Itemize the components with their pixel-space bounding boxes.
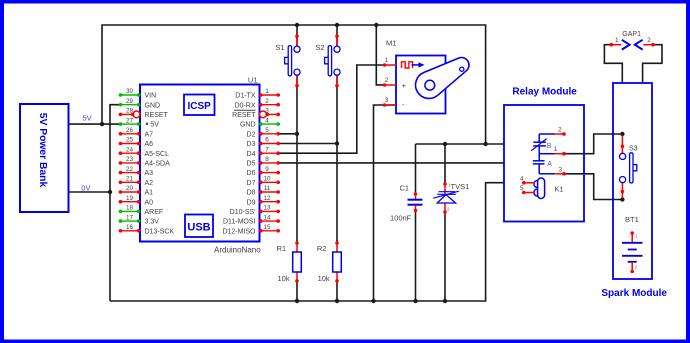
svg-text:25: 25 xyxy=(126,137,134,144)
op-amp U1 Arduino Nano body xyxy=(140,85,260,242)
motor M1 servo xyxy=(383,56,469,114)
wire 5V decoupling net to relay module xyxy=(416,143,505,145)
pin 19 A0 (left) xyxy=(119,195,153,206)
svg-text:D12-MISO: D12-MISO xyxy=(222,228,256,235)
pin 3 RESET (right) xyxy=(232,108,280,119)
pin 20 A1 (left) xyxy=(119,185,153,196)
capacitor C1 xyxy=(408,192,423,212)
pin 10 D7 (right) xyxy=(247,176,280,187)
svg-text:A3: A3 xyxy=(145,170,154,177)
svg-text:17: 17 xyxy=(126,214,134,221)
svg-text:13: 13 xyxy=(263,205,271,212)
pin 29 GND (left) xyxy=(119,98,160,109)
svg-text:0V: 0V xyxy=(81,184,90,193)
TVS diode TVS1 xyxy=(433,182,459,214)
svg-text:29: 29 xyxy=(126,98,134,105)
USB block xyxy=(185,215,213,238)
svg-text:D4: D4 xyxy=(247,151,256,158)
svg-text:8: 8 xyxy=(265,156,269,163)
svg-text:S3: S3 xyxy=(629,146,638,153)
svg-text:VIN: VIN xyxy=(145,93,157,100)
wire M1 pin2 to 5V rail xyxy=(376,25,384,85)
svg-text:20: 20 xyxy=(126,185,134,192)
svg-text:3.3V: 3.3V xyxy=(145,219,160,226)
label Relay Module xyxy=(512,87,577,98)
pin 1 D1-TX (right) xyxy=(235,88,280,99)
pin 28 RESET (left) xyxy=(119,108,169,119)
wire TVS1 bottom xyxy=(444,213,446,302)
label C1 xyxy=(400,184,410,193)
wire 5V from power bank to Arduino +5V pin xyxy=(69,123,121,125)
pin 9 D6 (right) xyxy=(247,166,280,177)
svg-text:A1: A1 xyxy=(145,190,154,197)
svg-text:D3: D3 xyxy=(247,141,256,148)
label R1 xyxy=(277,244,287,253)
svg-text:11: 11 xyxy=(264,185,271,192)
svg-text:A5-SCL: A5-SCL xyxy=(145,151,170,158)
svg-text:26: 26 xyxy=(126,127,134,134)
svg-text:2: 2 xyxy=(647,37,651,44)
switch S3 xyxy=(620,136,637,199)
svg-text:A4-SDA: A4-SDA xyxy=(145,161,171,168)
label Spark Module xyxy=(601,288,667,299)
svg-text:RESET: RESET xyxy=(145,112,169,119)
svg-text:15: 15 xyxy=(263,224,271,231)
svg-text:1: 1 xyxy=(554,146,558,153)
svg-text:R2: R2 xyxy=(317,244,327,253)
svg-text:1: 1 xyxy=(385,57,389,64)
pin 2 D0-RX (right) xyxy=(234,98,280,109)
pin 24 A5-SCL (left) xyxy=(119,146,169,157)
wire relay pin3 to spark module switch bottom xyxy=(564,174,622,200)
svg-text:A: A xyxy=(547,161,552,168)
wire S1 bottom to D2 junction xyxy=(296,76,298,134)
wire M1 pin3 to GND rail xyxy=(374,105,397,301)
net label 5V xyxy=(83,114,92,123)
svg-text:14: 14 xyxy=(263,214,271,221)
svg-text:16: 16 xyxy=(126,224,134,231)
pin 16 D13-SCK (left) xyxy=(119,224,175,235)
svg-text:S2: S2 xyxy=(315,43,324,52)
svg-text:5V Power Bank: 5V Power Bank xyxy=(37,113,48,188)
svg-text:B: B xyxy=(547,143,552,150)
resistor R2 xyxy=(333,241,342,283)
pin 11 D8 (right) xyxy=(247,185,280,196)
wire R2 top xyxy=(336,144,338,243)
svg-text:4: 4 xyxy=(520,175,524,182)
pin 18 AREF (left) xyxy=(119,205,163,216)
svg-text:18: 18 xyxy=(126,205,134,212)
wire S1 top to 5V rail xyxy=(296,25,298,46)
relay contacts A and B xyxy=(531,126,566,175)
wire D2 from Arduino pin5 xyxy=(279,133,298,135)
pin 25 A6 (left) xyxy=(119,137,153,148)
wire D3 from Arduino pin6 xyxy=(279,143,338,145)
svg-text:5V: 5V xyxy=(83,114,92,123)
svg-text:24: 24 xyxy=(126,146,134,153)
svg-text:BT1: BT1 xyxy=(625,215,639,224)
label S3 xyxy=(629,146,638,153)
svg-text:A6: A6 xyxy=(145,141,154,148)
svg-text:12: 12 xyxy=(263,195,271,202)
pin 13 D10-SS' (right) xyxy=(230,205,280,216)
svg-text:2: 2 xyxy=(265,98,269,105)
pin 17 3.3V (left) xyxy=(119,214,160,225)
pin 26 A7 (left) xyxy=(119,127,153,138)
pin 5 D2 (right) xyxy=(247,127,280,138)
wire GAP1 pin2 to spark module xyxy=(643,45,662,83)
pin 7 D4 (right) xyxy=(247,146,280,157)
svg-text:GND: GND xyxy=(240,122,256,129)
svg-text:7: 7 xyxy=(265,146,269,153)
wire 0V from power bank to GND vertical xyxy=(69,191,111,193)
svg-text:3: 3 xyxy=(559,167,563,174)
wire R2 bottom xyxy=(336,282,338,302)
pin 12 D9 (right) xyxy=(247,195,280,206)
svg-text:5: 5 xyxy=(265,127,269,134)
svg-text:GAP1: GAP1 xyxy=(622,31,641,38)
svg-text:D6: D6 xyxy=(247,170,256,177)
wire C1 bottom branch xyxy=(415,211,417,301)
svg-text:2: 2 xyxy=(385,77,389,84)
svg-text:1: 1 xyxy=(615,37,619,44)
pin 30 VIN (left) xyxy=(119,88,156,99)
svg-text:22: 22 xyxy=(126,166,134,173)
relay module box xyxy=(504,105,584,222)
svg-text:10k: 10k xyxy=(318,274,330,283)
pin 4 GND (right) xyxy=(240,117,280,128)
svg-text:2: 2 xyxy=(558,126,562,133)
pin 15 D12-MISO (right) xyxy=(222,224,280,235)
wire S2 bottom to D3 junction xyxy=(336,76,338,144)
svg-text:6: 6 xyxy=(265,137,269,144)
net label 0V xyxy=(81,184,90,193)
wire junction dots xyxy=(100,23,625,303)
svg-text:A0: A0 xyxy=(145,199,154,206)
ICSP block xyxy=(184,95,215,116)
label TVS1 xyxy=(451,182,470,191)
svg-text:C1: C1 xyxy=(400,184,410,193)
svg-text:AREF: AREF xyxy=(145,209,164,216)
svg-text:K1: K1 xyxy=(554,185,563,194)
svg-text:4: 4 xyxy=(265,117,269,124)
pin 21 A2 (left) xyxy=(119,176,153,187)
wire R1 top xyxy=(296,134,298,243)
svg-text:D10-SS': D10-SS' xyxy=(230,209,256,216)
label BT1 xyxy=(625,215,639,224)
spark gap GAP1 xyxy=(610,37,655,50)
svg-text:D0-RX: D0-RX xyxy=(234,102,255,109)
svg-text:1: 1 xyxy=(265,88,269,95)
svg-text:23: 23 xyxy=(126,156,134,163)
wire C1 top branch xyxy=(415,144,417,194)
svg-text:D9: D9 xyxy=(247,199,256,206)
label M1 xyxy=(386,39,396,48)
wire TVS1 top xyxy=(444,144,446,184)
svg-text:+: + xyxy=(402,81,407,90)
label U1 xyxy=(248,76,258,85)
resistor R1 xyxy=(293,241,302,283)
svg-text:27: 27 xyxy=(126,117,134,124)
svg-text:USB: USB xyxy=(187,222,210,234)
wire GND bottom rail xyxy=(110,183,504,301)
svg-text:S1: S1 xyxy=(275,43,284,52)
wire D4 from Arduino pin7 to servo M1 pin1 xyxy=(279,65,385,153)
pin 14 D11-MOSI (right) xyxy=(223,214,280,225)
pin 8 D5 (right) xyxy=(247,156,280,167)
wire relay pin1 to spark module switch top xyxy=(564,134,622,154)
wire R1 bottom xyxy=(296,282,298,302)
svg-text:A2: A2 xyxy=(145,180,154,187)
svg-text:D11-MOSI: D11-MOSI xyxy=(223,219,256,226)
battery BT1 xyxy=(622,231,643,273)
label R2 xyxy=(317,244,327,253)
value 10k of R2 xyxy=(318,274,330,283)
pin 6 D3 (right) xyxy=(247,137,280,148)
svg-text:D1-TX: D1-TX xyxy=(235,93,256,100)
label GAP1 xyxy=(622,31,641,38)
svg-text:M1: M1 xyxy=(386,39,396,48)
wire 5V rail from power junction up and across top xyxy=(102,25,486,144)
svg-text:10: 10 xyxy=(263,176,271,183)
svg-text:30: 30 xyxy=(126,88,134,95)
svg-text:D2: D2 xyxy=(247,131,256,138)
svg-text:RESET: RESET xyxy=(232,112,256,119)
svg-text:3: 3 xyxy=(265,108,269,115)
svg-text:GND: GND xyxy=(145,102,161,109)
svg-text:TVS1: TVS1 xyxy=(451,182,470,191)
svg-text:21: 21 xyxy=(126,176,134,183)
svg-text:D13-SCK: D13-SCK xyxy=(145,228,175,235)
pin 27 +5V (left) xyxy=(119,117,159,128)
wire GND from Arduino pin29 down left side xyxy=(110,105,120,301)
svg-text:Relay Module: Relay Module xyxy=(512,87,577,98)
wire S2 top to 5V rail xyxy=(336,25,338,46)
svg-text:ICSP: ICSP xyxy=(188,101,212,112)
label ArduinoNano xyxy=(214,246,261,255)
wire GAP1 pin1 to spark module xyxy=(604,45,622,83)
svg-text:Spark Module: Spark Module xyxy=(601,288,667,299)
pin 22 A3 (left) xyxy=(119,166,153,177)
svg-text:3: 3 xyxy=(385,97,389,104)
spark module box xyxy=(613,83,652,279)
relay coil K1 xyxy=(520,175,545,198)
switch S1 xyxy=(275,34,300,88)
wire D5 from Arduino pin8 to relay module xyxy=(279,162,505,164)
label K1 xyxy=(554,185,563,194)
svg-text:5V: 5V xyxy=(150,122,159,129)
svg-text:R1: R1 xyxy=(277,244,287,253)
svg-text:D8: D8 xyxy=(247,190,256,197)
value 10k of R1 xyxy=(278,274,290,283)
value 100nF of C1 xyxy=(390,214,412,223)
svg-text:5: 5 xyxy=(520,185,524,192)
svg-text:9: 9 xyxy=(265,166,269,173)
power supply 5V Power Bank xyxy=(20,104,69,212)
svg-text:28: 28 xyxy=(126,108,134,115)
switch S2 xyxy=(315,34,340,88)
svg-text:A7: A7 xyxy=(145,131,154,138)
svg-text:D7: D7 xyxy=(247,180,256,187)
svg-text:ArduinoNano: ArduinoNano xyxy=(214,246,261,255)
svg-text:19: 19 xyxy=(126,195,134,202)
pin 23 A4-SDA (left) xyxy=(119,156,170,167)
svg-text:D5: D5 xyxy=(247,161,256,168)
svg-text:100nF: 100nF xyxy=(390,214,412,223)
svg-text:10k: 10k xyxy=(278,274,290,283)
svg-text:U1: U1 xyxy=(248,76,258,85)
